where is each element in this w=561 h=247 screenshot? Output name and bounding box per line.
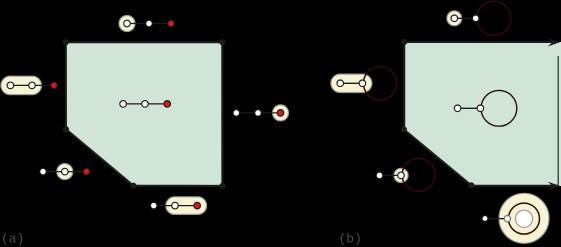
bond line <box>127 23 171 25</box>
vertex a2 (top-right) <box>219 39 225 45</box>
bond line <box>123 103 167 105</box>
node red 3 <box>164 101 171 108</box>
node white 1 <box>120 101 127 108</box>
halo around second node <box>394 168 408 182</box>
node white 2 <box>472 15 479 22</box>
capsule around nodes 2,3 <box>166 197 207 215</box>
loop circle <box>402 159 435 192</box>
svg-text:(a): (a) <box>1 232 24 247</box>
edge b-bottom <box>471 185 558 187</box>
loop circle <box>363 67 396 100</box>
loop circle <box>477 1 511 35</box>
node white 1 <box>482 216 488 222</box>
white inner disk <box>515 210 532 227</box>
node white 1 <box>233 110 240 117</box>
vertex a4 (bottom-mid) <box>130 183 136 189</box>
node red 3 <box>194 202 201 209</box>
node white 2 <box>146 20 153 27</box>
symbol Sa-left : capsule(node,node) - red node <box>1 76 57 94</box>
bond line <box>380 174 402 176</box>
node red 3 <box>51 82 58 89</box>
node white 2 <box>172 202 179 209</box>
node white 1 <box>451 15 458 22</box>
capsule around nodes 1,2 <box>331 74 372 92</box>
vertex b1 (top-left) <box>401 39 407 45</box>
node white 1 <box>454 105 461 112</box>
symbol Sa-center : node - node - red node (inside polygon) <box>120 101 171 108</box>
node white 1 <box>376 172 383 179</box>
node white 1 <box>7 82 14 89</box>
bond line <box>236 112 280 114</box>
symbol Sb-top : circled node - node with loop <box>447 1 511 35</box>
svg-text:(b): (b) <box>339 232 362 247</box>
node red 3 <box>168 20 175 27</box>
node red 3 <box>83 168 90 175</box>
loop circle <box>481 90 517 126</box>
arrow b-top <box>548 38 560 47</box>
node white 2 (on loop) <box>504 216 510 222</box>
loop ring <box>509 203 540 234</box>
node white 1 <box>124 20 131 27</box>
symbol Sa-bottom : node - capsule(node, red node) <box>150 197 206 215</box>
symbol Sb-bottomleft : node - circled node with loop <box>376 159 435 192</box>
edge b-top <box>404 41 558 43</box>
halo around red node <box>273 105 289 121</box>
capsule around nodes 1,2 <box>1 76 42 94</box>
symbol Sb-bottomright : node - circled(node with loop), big <box>482 193 549 243</box>
vertex a3 (bottom-right) <box>219 183 225 189</box>
halo around first node <box>447 11 462 26</box>
polygon P(a) <box>66 42 223 186</box>
halo around middle node <box>57 164 73 180</box>
arrow b-bottom <box>548 182 560 191</box>
symbol Sa-right : node - node - circled red node <box>233 105 289 121</box>
node white 2 <box>62 168 69 175</box>
symbol Sb-left : capsule(node,node) with loop <box>331 67 397 100</box>
vertex b3 (bottom-mid) <box>468 182 474 188</box>
node white 2 <box>477 105 484 112</box>
symbol Sb-center : node - node with loop (inside region) <box>454 90 516 126</box>
edge b-right (thin clip line) <box>557 56 559 185</box>
vertex b2 (left) <box>401 126 407 132</box>
bond line <box>458 107 481 109</box>
halo around first node <box>119 16 135 32</box>
node white 1 <box>337 80 344 87</box>
node red 3 <box>277 110 284 117</box>
bond line <box>485 218 507 220</box>
bond line <box>340 82 362 84</box>
edge b-left <box>403 42 405 129</box>
vertex a1 (top-left) <box>63 39 69 45</box>
symbol Sa-top : circled node - node - red node <box>119 16 174 32</box>
bond line <box>43 171 86 173</box>
node white 2 <box>29 82 36 89</box>
node white 2 <box>142 101 149 108</box>
bond line <box>154 205 198 207</box>
node white 1 <box>150 202 157 209</box>
vertex a5 (left) <box>63 126 69 132</box>
node white 2 <box>398 172 405 179</box>
bond line <box>454 17 475 19</box>
region P(b) fill <box>404 42 561 186</box>
symbol Sa-bottomleft : node - circled node - red node <box>40 164 90 180</box>
node white 1 <box>40 168 47 175</box>
big cream halo disk <box>499 193 549 243</box>
edge b-diagonal <box>404 129 472 185</box>
node white 2 <box>255 110 262 117</box>
bond line <box>10 84 54 86</box>
node white 2 <box>359 80 366 87</box>
